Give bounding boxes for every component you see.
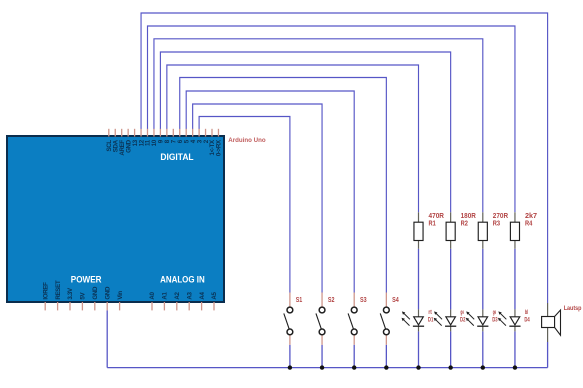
pin Vin (power/analog header) [119, 302, 121, 310]
pin 8 (digital header) [166, 129, 168, 137]
svg-text:0->RX: 0->RX [216, 139, 223, 156]
junction node D1/GND [416, 365, 420, 369]
junction node S2/GND [320, 365, 324, 369]
wire R4 to D4 [514, 249, 516, 310]
switch S1 [284, 293, 293, 345]
svg-text:D4: D4 [524, 316, 530, 323]
svg-text:3.3V: 3.3V [67, 287, 74, 300]
wire S4 to GND bus [385, 345, 387, 368]
LED D3 ge [466, 309, 489, 331]
svg-text:ge: ge [461, 309, 465, 316]
wire S1 to GND bus [289, 345, 291, 368]
svg-text:Lautsp: Lautsp [564, 305, 582, 312]
wire D1 to GND bus [418, 331, 420, 367]
pin 11 (digital header) [147, 129, 149, 137]
svg-text:A1: A1 [162, 291, 169, 299]
svg-text:R2: R2 [461, 218, 468, 227]
junction node D3/GND [481, 365, 485, 369]
resistor R3 270R [478, 212, 487, 249]
pin IOREF (power/analog header) [44, 302, 46, 310]
wire net pin 4->S2 [193, 104, 322, 293]
wire GND bus [107, 367, 547, 369]
pin 9 (digital header) [159, 129, 161, 137]
pin 4 (digital header) [192, 129, 194, 137]
pin 2 (digital header) [205, 129, 207, 137]
svg-text:D2: D2 [460, 316, 466, 323]
pin A1 (power/analog header) [163, 302, 165, 310]
svg-text:A3: A3 [186, 291, 193, 299]
svg-text:A4: A4 [199, 291, 206, 299]
wire net pin 10->D3 [154, 39, 483, 213]
pin 3 (digital header) [198, 129, 200, 137]
svg-text:S3: S3 [360, 295, 367, 304]
switch S3 [348, 293, 357, 345]
pin 0->RX (digital header) [217, 129, 219, 137]
wire net pin 6->S4 [180, 78, 387, 293]
pin AREF (digital header) [121, 129, 123, 137]
svg-text:ge: ge [493, 309, 497, 316]
wire S2 to GND bus [321, 345, 323, 368]
wire net pin 11->D4 [148, 26, 515, 212]
wire net pin 8->D1 [167, 65, 419, 212]
pin 12 (digital header) [140, 129, 142, 137]
svg-text:rt: rt [428, 309, 431, 316]
svg-text:S2: S2 [328, 295, 335, 304]
junction node S3/GND [352, 365, 356, 369]
svg-text:POWER: POWER [71, 274, 102, 284]
wire R1 to D1 [418, 249, 420, 310]
svg-text:DIGITAL: DIGITAL [160, 152, 194, 162]
wire R2 to D2 [450, 249, 452, 310]
arduino uno board U1 [7, 136, 224, 302]
junction node S1/GND [288, 365, 292, 369]
pin GND (power/analog header) [106, 302, 108, 310]
wire D4 to GND bus [514, 331, 516, 367]
pin 10 (digital header) [153, 129, 155, 137]
wire net pin 9->D2 [160, 52, 450, 212]
LED D2 ge [434, 309, 457, 331]
pin 5 (digital header) [185, 129, 187, 137]
pin 1<-TX (digital header) [211, 129, 213, 137]
junction node D4/GND [513, 365, 517, 369]
pin A2 (power/analog header) [176, 302, 178, 310]
pin 5V (power/analog header) [81, 302, 83, 310]
wire S3 to GND bus [353, 345, 355, 368]
pin 7 (digital header) [172, 129, 174, 137]
svg-text:R1: R1 [429, 218, 437, 227]
svg-text:A0: A0 [149, 291, 156, 299]
switch S2 [316, 293, 325, 345]
pin 13 (digital header) [134, 129, 136, 137]
svg-text:Vin: Vin [117, 291, 124, 300]
svg-text:R3: R3 [493, 218, 500, 227]
svg-text:S4: S4 [392, 295, 399, 304]
pin GND (digital header) [127, 129, 129, 137]
speaker LS1 Lautsprecher [542, 303, 561, 342]
wire D3 to GND bus [482, 331, 484, 367]
pin 6 (digital header) [179, 129, 181, 137]
svg-text:RESET: RESET [55, 280, 62, 299]
svg-text:GND: GND [92, 286, 99, 300]
svg-text:D3: D3 [492, 316, 498, 323]
svg-text:A5: A5 [211, 291, 218, 299]
wire net pin 12->LS1 [141, 13, 548, 303]
svg-text:R4: R4 [525, 218, 533, 227]
pin 3.3V (power/analog header) [69, 302, 71, 310]
svg-text:S1: S1 [296, 295, 303, 304]
svg-text:A2: A2 [174, 291, 181, 299]
svg-text:ANALOG IN: ANALOG IN [160, 274, 205, 284]
svg-text:GND: GND [104, 286, 111, 300]
pin A4 (power/analog header) [201, 302, 203, 310]
pin SDA (digital header) [114, 129, 116, 137]
pin GND (power/analog header) [94, 302, 96, 310]
wire R3 to D3 [482, 249, 484, 310]
pin RESET (power/analog header) [57, 302, 59, 310]
resistor R2 180R [446, 212, 455, 249]
LED D4 bl [498, 309, 521, 331]
svg-text:IOREF: IOREF [42, 282, 49, 300]
pin SCL (digital header) [108, 129, 110, 137]
wire net pin 5->S3 [186, 91, 354, 293]
svg-text:D1: D1 [428, 316, 434, 323]
svg-text:bl: bl [525, 309, 529, 316]
pin A5 (power/analog header) [213, 302, 215, 310]
wire GND from board [106, 310, 108, 367]
svg-text:Arduino Uno: Arduino Uno [228, 137, 265, 144]
junction node D2/GND [448, 365, 452, 369]
wire net pin 3->S1 [199, 117, 290, 293]
pin A3 (power/analog header) [188, 302, 190, 310]
junction node S4/GND [384, 365, 388, 369]
pin A0 (power/analog header) [151, 302, 153, 310]
resistor R1 470R [414, 212, 423, 249]
wire speaker to GND bus [547, 342, 549, 368]
resistor R4 2k7 [510, 212, 519, 249]
wire D2 to GND bus [450, 331, 452, 367]
switch S4 [380, 293, 389, 345]
LED D1 rt [402, 309, 425, 331]
